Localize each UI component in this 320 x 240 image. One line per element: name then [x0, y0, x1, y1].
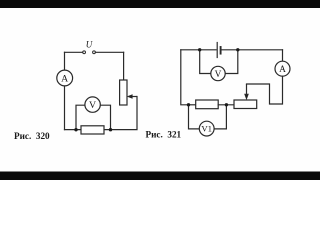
ammeter A circuit 320 — [57, 70, 73, 86]
ammeter A circuit 321 — [275, 61, 290, 76]
wire left vertical upper (to ammeter) — [64, 52, 66, 70]
wire V1 branch left — [189, 105, 200, 129]
wire top circuit 321 left of battery — [181, 49, 216, 51]
wiper arrow of rheostat R4 — [245, 84, 249, 99]
wire ammeter down and staircase to wiper — [247, 76, 283, 104]
wire voltmeter branch right — [100, 105, 110, 129]
junction dot top-left of battery — [198, 48, 201, 51]
junction dot left of resistor R3 — [187, 103, 190, 106]
terminal right of U gap — [93, 51, 96, 54]
wire wiper to bottom right — [65, 97, 138, 130]
rheostat R2 body (vertical) — [120, 80, 127, 105]
wire voltmeter branch left — [76, 105, 85, 129]
voltmeter V circuit 320 — [85, 97, 100, 112]
battery GB short plate — [220, 47, 222, 54]
wire top-right segment circuit 320 — [95, 51, 123, 53]
junction dot right of resistor R3 — [225, 103, 228, 106]
svg-text:U: U — [86, 40, 93, 50]
wire resistor to rheostat — [218, 104, 234, 106]
svg-text:V: V — [215, 70, 222, 80]
wire from left dot to resistor — [189, 104, 196, 106]
svg-text:V1: V1 — [201, 124, 212, 134]
voltmeter V1 circuit 321 — [199, 121, 214, 136]
junction dot left of R1 — [74, 128, 77, 131]
wire V1 branch right — [214, 105, 226, 129]
terminal left of U gap — [83, 51, 86, 54]
svg-text:Рис. 320: Рис. 320 — [14, 131, 50, 141]
battery GB long plate — [216, 43, 218, 58]
junction dot right of R1 — [109, 128, 112, 131]
wire top-left segment circuit 320 — [65, 51, 83, 53]
wire voltmeter V branch left circuit 321 — [200, 50, 211, 74]
voltmeter V circuit 321 — [211, 66, 225, 80]
resistor R1 body circuit 320 — [81, 126, 104, 134]
wire top circuit 321 right of battery — [222, 49, 283, 51]
svg-text:A: A — [61, 74, 68, 85]
wire voltmeter V branch right circuit 321 — [225, 50, 238, 74]
svg-text:V: V — [89, 100, 96, 111]
wire left vertical lower (ammeter to bottom) — [64, 86, 66, 130]
rheostat R4 body (horizontal) — [234, 100, 257, 109]
resistor R3 body circuit 321 — [196, 100, 219, 109]
svg-text:Рис. 321: Рис. 321 — [146, 130, 182, 140]
wire left vertical circuit 321 — [181, 50, 189, 105]
wire right vertical to rheostat top — [123, 52, 125, 80]
wiper arrow of rheostat R2 — [127, 95, 137, 99]
junction dot top-right of battery — [236, 48, 239, 51]
wire right corner down to ammeter — [282, 50, 284, 61]
svg-text:A: A — [279, 65, 286, 75]
